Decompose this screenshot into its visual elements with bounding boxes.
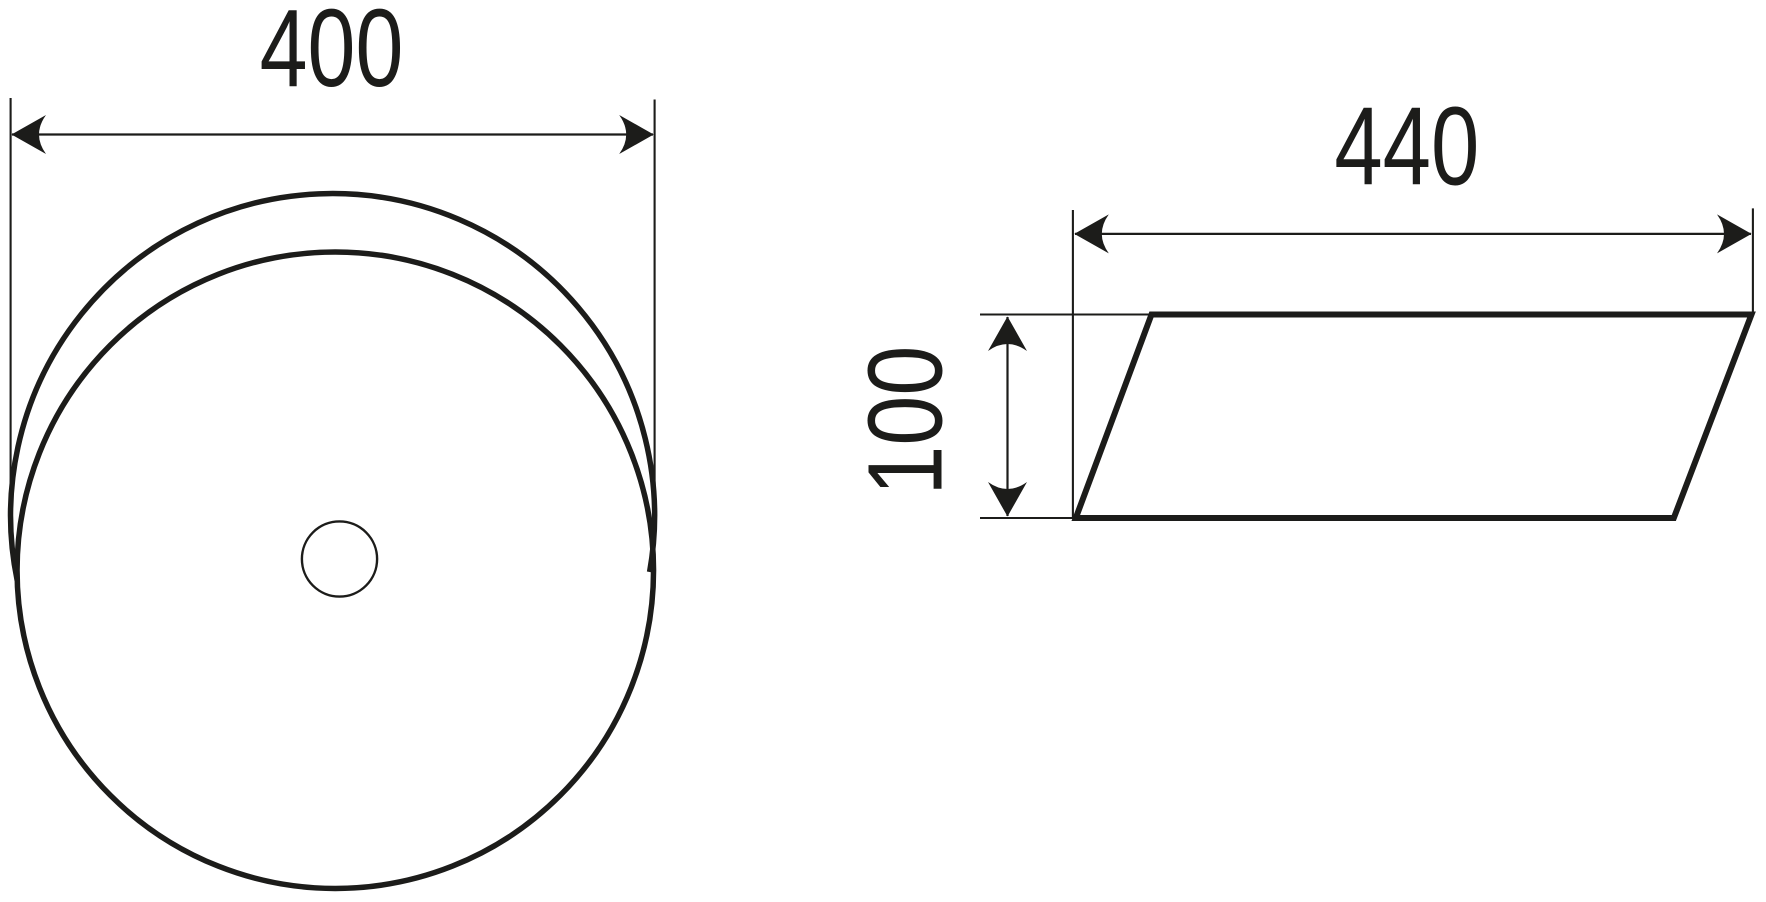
dimension 440: left extension line — [1072, 210, 1074, 519]
dimension 100: dimension line — [1006, 317, 1008, 516]
dimension 100: bottom arrowhead — [988, 482, 1027, 517]
dimension 400: dimension line — [12, 133, 653, 135]
dimension 100: top arrowhead — [988, 317, 1027, 352]
svg-text:440: 440 — [1334, 85, 1479, 209]
dimension 400: left arrowhead — [12, 115, 47, 154]
inner basin circle — [17, 252, 654, 889]
dimension 440: right extension line — [1752, 208, 1754, 311]
dimension 440: left arrowhead — [1074, 214, 1109, 253]
dimension 440: dimension line — [1075, 233, 1751, 235]
dimension 400: left extension line — [10, 98, 12, 540]
basin body parallelogram — [1076, 315, 1752, 519]
dimension 440: right arrowhead — [1717, 214, 1752, 253]
outer rim arc (upper part of outer circle) — [11, 194, 655, 581]
svg-text:400: 400 — [260, 0, 404, 109]
svg-text:100: 100 — [846, 346, 965, 496]
dimension 100: top extension line — [980, 313, 1153, 315]
dimension 100: bottom extension line — [980, 517, 1077, 519]
drain hole circle — [302, 521, 377, 596]
dimension 400: right extension line — [654, 100, 656, 531]
dimension 400: right arrowhead — [619, 115, 654, 154]
